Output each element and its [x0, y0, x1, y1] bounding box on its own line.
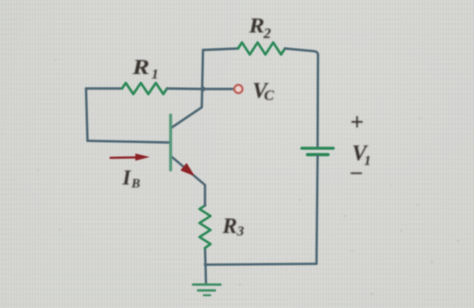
battery V1 top plate: [302, 147, 333, 150]
wire bottom (corner to ground junction): [206, 263, 317, 266]
wire R3 bottom lead: [204, 248, 207, 265]
ground bar 3: [204, 294, 210, 296]
wire base lead: [88, 141, 170, 143]
svg-text:3: 3: [236, 225, 244, 240]
svg-text:R: R: [222, 213, 238, 238]
wire R1 right segment to junction: [167, 87, 203, 90]
svg-text:B: B: [131, 176, 141, 191]
terminal VC open circle: [234, 85, 242, 93]
svg-text:+: +: [350, 110, 364, 136]
battery V1 bottom plate: [308, 153, 329, 156]
resistor R2: [238, 43, 285, 55]
wire right vertical lower (battery to bottom corner): [317, 156, 318, 264]
svg-text:R: R: [248, 14, 265, 38]
transistor Q1 collector lead: [172, 50, 203, 128]
transistor Q1 emitter lead: [172, 157, 205, 206]
wire left vertical: [86, 89, 88, 141]
transistor Q1 base bar: [169, 115, 172, 170]
svg-text:1: 1: [152, 68, 159, 83]
svg-text:I: I: [122, 166, 132, 190]
wire top right segment R2 to corner: [285, 49, 318, 56]
svg-text:–: –: [350, 159, 362, 184]
wire R1 left segment from corner: [86, 87, 122, 89]
svg-text:2: 2: [263, 26, 272, 42]
wire ground stem: [204, 265, 207, 285]
svg-text:1: 1: [364, 154, 371, 169]
transistor Q1 emitter arrow: [181, 164, 193, 175]
ground bar 2: [198, 289, 215, 291]
node ground junction: [204, 263, 207, 266]
wire VC tap: [203, 88, 234, 90]
current arrow IB: [111, 156, 138, 159]
resistor R3: [200, 206, 211, 249]
ground bar 1: [193, 283, 221, 285]
svg-text:C: C: [264, 88, 275, 104]
resistor R1: [122, 83, 167, 94]
node collector junction: [201, 87, 206, 92]
svg-text:R: R: [131, 55, 149, 79]
wire right vertical upper (corner to battery top): [316, 55, 319, 147]
wire top left segment from riser to R2: [203, 49, 238, 51]
